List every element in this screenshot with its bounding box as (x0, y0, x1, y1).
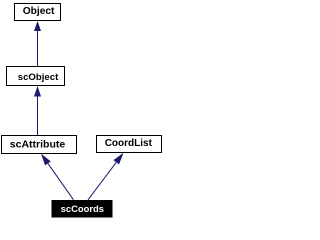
svg-text:scAttribute: scAttribute (10, 138, 66, 150)
svg-text:CoordList: CoordList (105, 138, 153, 149)
svg-text:scCoords: scCoords (61, 203, 104, 214)
svg-text:Object: Object (23, 6, 55, 17)
svg-text:scObject: scObject (18, 72, 59, 83)
